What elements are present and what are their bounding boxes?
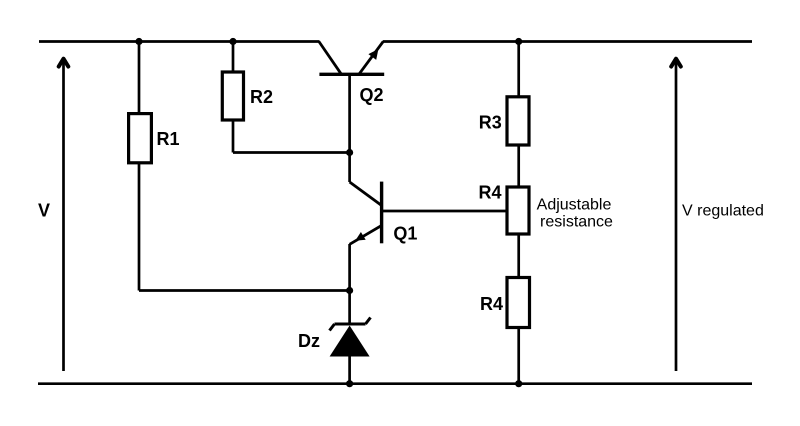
node: R2 top junction (229, 38, 236, 45)
wire: node down to Q1 collector (348, 153, 351, 183)
wire: Q2 base lead (348, 74, 351, 152)
svg-text:R4: R4 (479, 183, 502, 203)
wire: top rail right segment (V regulated rail) (383, 40, 752, 43)
wire: Q1 emitter lead (348, 244, 351, 291)
svg-text:R2: R2 (250, 87, 273, 107)
node: divider bottom junction (515, 380, 522, 387)
svg-text:resistance: resistance (540, 214, 613, 231)
wire: Q1 base to adjustable resistor tap (382, 210, 507, 213)
node: zener bottom rail junction (346, 380, 353, 387)
resistor R4 (bottom) (507, 278, 530, 328)
wire: top rail left segment (V input rail) (39, 40, 320, 43)
zener diode Dz (330, 318, 371, 357)
wire: bottom rail (38, 382, 752, 385)
resistor R2 (222, 72, 243, 120)
wire: node down to zener cathode (348, 291, 351, 326)
wire: R1 top lead (138, 42, 141, 114)
wire: R1 bottom lead (138, 163, 141, 291)
wire: R1 bottom to emitter node (139, 289, 350, 292)
transistor Q2 (319, 42, 384, 75)
wire: R4 bottom lead (517, 328, 520, 384)
svg-text:V: V (38, 201, 50, 221)
svg-text:Dz: Dz (298, 331, 320, 351)
wire: R3 top lead (517, 42, 520, 97)
resistor R1 (129, 114, 152, 163)
V regulated arrow (671, 59, 681, 371)
svg-text:R4: R4 (480, 294, 503, 314)
svg-text:Q2: Q2 (360, 85, 384, 105)
wire: R2 top lead (232, 42, 235, 73)
node: Q1 emitter / R1 / zener junction (346, 287, 353, 294)
label: Adjustable resistance (537, 197, 613, 231)
node: R1 top junction (135, 38, 142, 45)
svg-text:V regulated: V regulated (682, 203, 764, 220)
resistor R4 (adjustable) (507, 187, 529, 234)
wire: R2 bottom lead (232, 120, 235, 153)
wire: R4 adjustable to R4 bottom (517, 234, 520, 278)
svg-text:R1: R1 (157, 129, 180, 149)
svg-text:Adjustable: Adjustable (537, 197, 612, 214)
resistor R3 (507, 97, 529, 145)
svg-text:Q1: Q1 (393, 224, 417, 244)
wire: R2 bottom to Q2 base node (233, 151, 350, 154)
wire: R3 to R4 adjustable (517, 145, 520, 187)
V input arrow (59, 59, 69, 371)
transistor Q1 (350, 182, 382, 245)
svg-text:R3: R3 (479, 113, 502, 133)
wire: zener anode to bottom rail (348, 357, 351, 384)
node: divider top junction (515, 38, 522, 45)
node: Q2 base / R2 / Q1 collector junction (346, 149, 353, 156)
